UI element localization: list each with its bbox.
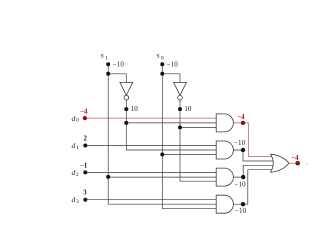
svg-text:2: 2 — [84, 136, 88, 143]
output dot AND4 — [241, 202, 245, 206]
svg-text:d: d — [72, 195, 76, 204]
wire s0 vertical trunk to AND4 — [162, 64, 216, 208]
junction dot s1/inverter — [106, 72, 110, 76]
terminal dot d2 — [83, 170, 87, 174]
wire d1 to AND2 — [85, 145, 216, 147]
junction dot s1/AND3 — [106, 175, 110, 179]
svg-text:0: 0 — [161, 56, 164, 62]
wire s0 branch to AND2 — [162, 154, 216, 156]
svg-text:3: 3 — [76, 199, 79, 205]
wire AND1 output (red) to OR input 1 — [233, 123, 272, 157]
wire s1 branch to AND3 — [108, 176, 216, 178]
value dot s0' (10) — [178, 107, 182, 111]
svg-text:10: 10 — [131, 105, 139, 113]
svg-text:−4: −4 — [80, 109, 88, 116]
wire s1' branch to AND1 — [126, 122, 216, 124]
terminal dot s0 — [160, 62, 164, 66]
inverter U1 (s1) — [120, 82, 133, 100]
inverter U2 (s0) — [174, 82, 187, 100]
wire AND4 output to OR input 4 — [233, 170, 272, 205]
wire d3 to AND4 — [85, 199, 216, 201]
svg-text:10: 10 — [184, 105, 192, 113]
junction dot s0/inverter — [160, 72, 164, 76]
and-gate A2 (d1) — [216, 141, 233, 159]
svg-text:−4: −4 — [237, 114, 245, 121]
svg-text:−10: −10 — [113, 60, 125, 68]
wire OR output (red) — [289, 162, 298, 164]
svg-text:2: 2 — [76, 172, 79, 178]
wire AND3 output to OR input 3 — [233, 165, 273, 177]
wire s1 branch to inverter U1 input — [108, 74, 126, 83]
and-gate A1 (d0) — [216, 114, 233, 132]
stray faint dot — [306, 163, 308, 165]
terminal dot d3 — [83, 198, 87, 202]
output dot AND3 — [241, 175, 245, 179]
wire AND2 output to OR input 2 — [233, 150, 273, 161]
svg-text:−4: −4 — [291, 155, 299, 162]
terminal dot d1 — [83, 144, 87, 148]
svg-text:d: d — [72, 168, 76, 177]
svg-text:0: 0 — [76, 118, 79, 124]
value dot s1' (10) — [124, 107, 128, 111]
wire s1 vertical trunk to AND4 — [108, 64, 216, 204]
svg-text:−10: −10 — [234, 139, 246, 147]
svg-text:1: 1 — [76, 145, 79, 151]
junction dot s0/AND2 — [160, 153, 164, 157]
junction dot s1'/AND1 — [124, 121, 128, 125]
wire d0 (red, value -4) to AND1 — [85, 117, 217, 119]
svg-text:s: s — [101, 51, 104, 60]
svg-text:3: 3 — [83, 190, 87, 197]
output dot AND1 (red) — [241, 121, 245, 125]
terminal dot s1 — [106, 62, 110, 66]
svg-text:−10: −10 — [235, 207, 247, 215]
wire d2 to AND3 — [85, 171, 216, 173]
svg-text:d: d — [72, 141, 76, 150]
svg-text:s: s — [157, 51, 160, 60]
svg-text:−10: −10 — [235, 181, 247, 189]
wire s0 branch to inverter U2 input — [162, 74, 180, 83]
or-gate O1 — [271, 154, 289, 172]
svg-text:−1: −1 — [80, 163, 88, 170]
and-gate A3 (d2) — [216, 168, 233, 186]
output dot AND2 — [241, 148, 245, 152]
svg-text:d: d — [72, 114, 76, 123]
junction dot s0'/AND1 — [178, 125, 182, 129]
svg-text:1: 1 — [105, 56, 108, 62]
svg-text:−10: −10 — [167, 60, 179, 68]
wire s0' inverter output trunk to AND3 — [180, 100, 217, 181]
output dot OR (red) — [295, 161, 300, 166]
wire s1' inverter output trunk to AND2 — [126, 100, 216, 150]
and-gate A4 (d3) — [216, 195, 233, 213]
terminal dot d0 (red) — [83, 116, 87, 120]
wire s0' branch to AND1 — [180, 126, 217, 128]
